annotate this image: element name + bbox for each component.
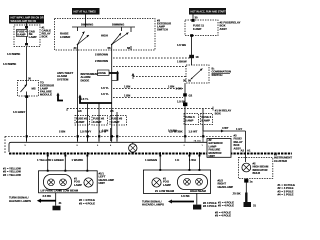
svg-text:LOWER: LOWER [60, 35, 70, 39]
svg-text:2 BN: 2 BN [59, 130, 65, 134]
svg-text:1 BN: 1 BN [124, 94, 130, 98]
svg-text:W/HEADLAMP SW ON: W/HEADLAMP SW ON [11, 20, 37, 23]
svg-text:1 BN: 1 BN [176, 87, 182, 91]
svg-text:#1 LOW BEAM: #1 LOW BEAM [59, 189, 79, 193]
svg-text:LAMP: LAMP [163, 183, 171, 187]
svg-text:#3 4 POLE: #3 4 POLE [203, 204, 217, 208]
svg-text:1.5 WH: 1.5 WH [177, 43, 186, 47]
svg-text:8 AMP: 8 AMP [76, 120, 84, 124]
svg-text:8 AMP: 8 AMP [17, 33, 25, 37]
svg-text:1a: 1a [250, 179, 254, 183]
svg-text:1 GY: 1 GY [236, 127, 242, 131]
svg-text:30: 30 [195, 16, 199, 20]
svg-text:56: 56 [108, 46, 112, 50]
svg-text:DIMMING: DIMMING [112, 22, 124, 26]
svg-text:BOX: BOX [215, 112, 221, 116]
svg-text:1.5 BN/BK: 1.5 BN/BK [3, 62, 16, 66]
svg-text:1 YELLOW: 1 YELLOW [37, 158, 51, 162]
svg-text:BOX: BOX [42, 35, 48, 39]
svg-text:1 BN: 1 BN [102, 129, 108, 133]
svg-text:2 BROWN: 2 BROWN [95, 53, 108, 57]
svg-text:1.5 BN/BK: 1.5 BN/BK [7, 52, 20, 56]
svg-text:#1 LOW BEAM: #1 LOW BEAM [155, 189, 175, 193]
svg-text:30: 30 [28, 77, 32, 81]
svg-text:1.5 RD/Y: 1.5 RD/Y [80, 130, 91, 134]
svg-text:1 WH: 1 WH [189, 158, 196, 162]
svg-text:#2 = 4 POLE: #2 = 4 POLE [79, 198, 95, 202]
svg-text:1 BN: 1 BN [124, 85, 130, 89]
svg-text:8 AMP: 8 AMP [193, 27, 201, 31]
svg-text:1 WH/BK: 1 WH/BK [72, 158, 84, 162]
svg-text:HAZARD LAMPS: HAZARD LAMPS [142, 203, 164, 207]
svg-text:1.5 BN: 1.5 BN [168, 129, 177, 133]
svg-text:BULB: BULB [253, 171, 261, 175]
svg-text:7A 11A: 7A 11A [194, 140, 202, 143]
svg-text:HAZARD LAMPS: HAZARD LAMPS [9, 199, 31, 203]
svg-text:1 BK/W: 1 BK/W [177, 60, 187, 64]
svg-text:HOT AT ALL TIMES: HOT AT ALL TIMES [74, 11, 97, 14]
svg-text:A1: A1 [247, 149, 251, 153]
svg-text:SWITCH: SWITCH [157, 28, 168, 32]
svg-text:31: 31 [253, 204, 257, 208]
svg-text:FUSE #1: FUSE #1 [76, 117, 88, 121]
svg-text:MS: MS [32, 87, 36, 91]
svg-text:LAMP: LAMP [74, 183, 82, 187]
svg-text:1.5 YL: 1.5 YL [101, 92, 109, 96]
svg-text:FUSE 5: FUSE 5 [185, 115, 195, 119]
svg-text:56: 56 [188, 79, 192, 83]
svg-text:MODULE: MODULE [40, 93, 52, 97]
svg-text:DIODE: DIODE [81, 78, 90, 82]
svg-text:18: 18 [196, 55, 200, 59]
svg-text:A2: A2 [241, 149, 245, 153]
svg-text:#3 = 4 POLE: #3 = 4 POLE [79, 201, 95, 205]
svg-text:#4 = 1 POLE: #4 = 1 POLE [278, 193, 294, 197]
svg-text:SYSTEM: SYSTEM [57, 77, 69, 81]
svg-text:G2: G2 [189, 94, 193, 98]
svg-text:8 AMP: 8 AMP [185, 119, 193, 123]
svg-text:58: 58 [127, 46, 131, 50]
svg-text:1 K: 1 K [175, 158, 179, 162]
svg-text:41: 41 [59, 201, 63, 205]
svg-text:A6: A6 [78, 109, 82, 113]
svg-text:.75 BK: .75 BK [232, 192, 241, 196]
svg-text:1.5 YL: 1.5 YL [81, 97, 89, 101]
svg-text:1 GREEN: 1 GREEN [145, 158, 157, 162]
svg-text:8 AMP: 8 AMP [93, 120, 101, 124]
svg-text:#2 = 4 POLE: #2 = 4 POLE [218, 204, 234, 208]
svg-text:CLUSTER: CLUSTER [274, 159, 287, 163]
svg-text:30: 30 [183, 79, 187, 83]
svg-text:A5: A5 [110, 109, 114, 113]
svg-text:HIGH BEAM: HIGH BEAM [190, 189, 206, 193]
svg-text:HEADLAMP: HEADLAMP [218, 185, 234, 189]
svg-text:ASSY: ASSY [220, 27, 228, 31]
svg-text:1 BN: 1 BN [168, 85, 174, 89]
svg-text:4 WT: 4 WT [222, 126, 229, 130]
svg-text:30: 30 [74, 46, 78, 50]
svg-text:2 BROWN: 2 BROWN [95, 59, 108, 63]
svg-text:1.5 WT: 1.5 WT [189, 130, 198, 134]
svg-text:DIMMING: DIMMING [81, 22, 93, 26]
svg-text:UNIT: UNIT [99, 181, 106, 185]
svg-text:LAMP: LAMP [29, 35, 37, 39]
svg-text:UNIT: UNIT [209, 154, 216, 158]
svg-text:RAISE: RAISE [60, 32, 69, 36]
svg-text:1.5 YL: 1.5 YL [101, 86, 109, 90]
svg-text:8 AMP: 8 AMP [111, 120, 119, 124]
svg-text:2.5 BK: 2.5 BK [43, 194, 52, 198]
svg-text:HOT IN ACC, RUN AND START: HOT IN ACC, RUN AND START [191, 11, 227, 14]
svg-text:1 GREEN: 1 GREEN [52, 158, 64, 162]
svg-text:FUSE 11: FUSE 11 [193, 24, 204, 28]
svg-text:FUSE: FUSE [99, 71, 107, 75]
svg-text:HIGH: HIGH [101, 34, 108, 38]
svg-text:1.5 GREY: 1.5 GREY [13, 110, 26, 114]
svg-text:1.5 BK: 1.5 BK [181, 194, 190, 198]
svg-text:#3 = 4 POLE: #3 = 4 POLE [215, 214, 231, 218]
svg-text:#3 = YELLOW: #3 = YELLOW [3, 173, 21, 177]
